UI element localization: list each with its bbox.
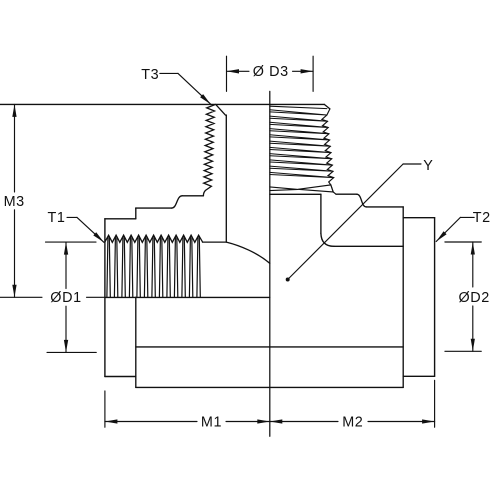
OD3 extension line right — [312, 56, 314, 91]
M2 dimension line — [270, 421, 435, 423]
center body bottom silhouette — [136, 386, 403, 388]
male thread silhouette (right) — [322, 109, 336, 194]
svg-text:Y: Y — [423, 158, 433, 174]
T1 leader — [67, 217, 104, 242]
M2 arrow left — [270, 419, 283, 423]
M1 arrow right — [257, 419, 270, 423]
M2 arrow right — [422, 419, 435, 423]
OD3 dimension line — [227, 70, 314, 72]
left hex-end bottom — [105, 376, 136, 378]
male NPT thread profile (left, section) — [203, 105, 215, 196]
OD2 arrow bottom — [471, 339, 475, 352]
center body top-left silhouette — [136, 207, 172, 209]
svg-text:ØD1: ØD1 — [50, 290, 81, 306]
right flare fillet — [357, 194, 367, 207]
branch top-left inner chamfer — [216, 104, 226, 115]
center body top-right silhouette — [366, 206, 403, 208]
left thread minor line — [203, 241, 227, 243]
OD3 extension line left — [226, 56, 228, 91]
M3 arrow bottom — [12, 285, 16, 298]
top face of branch / M3 top extension line — [0, 103, 324, 105]
right end face — [434, 218, 436, 377]
svg-text:ØD2: ØD2 — [459, 290, 490, 306]
OD1 dimension line — [65, 242, 67, 352]
svg-text:T2: T2 — [473, 210, 491, 226]
svg-text:M1: M1 — [201, 414, 222, 430]
right end-cap bottom — [403, 375, 434, 377]
OD2 extension line top — [445, 241, 481, 243]
thread runout pennant — [270, 185, 333, 192]
right section boundary — [402, 207, 404, 388]
right end-cap top — [403, 217, 434, 219]
thread runout base line — [270, 193, 321, 195]
label OD3 — [253, 64, 289, 80]
bore transition curve — [226, 242, 269, 263]
boss top tangent edge — [334, 245, 403, 247]
svg-text:M3: M3 — [4, 194, 25, 210]
OD3 arrow left — [227, 69, 240, 73]
M1 extension line left — [104, 391, 106, 427]
Y leader — [288, 164, 421, 280]
T2 arrowhead — [436, 231, 446, 241]
OD1 extension line bottom — [47, 351, 96, 353]
OD1 arrow bottom — [64, 340, 68, 353]
OD3 arrow right — [301, 69, 314, 73]
OD1 arrow top — [64, 242, 68, 255]
OD2 extension line bottom — [445, 350, 481, 352]
female NPT thread profile (left port) — [105, 235, 203, 242]
run centerline extension — [0, 296, 105, 298]
T1 arrowhead — [93, 232, 104, 242]
left end face — [104, 219, 106, 377]
left step — [135, 208, 137, 219]
M3 arrow top — [12, 104, 16, 117]
first thread crest line — [270, 106, 327, 108]
label M1 — [201, 414, 222, 430]
M3 dimension line — [14, 104, 16, 297]
svg-text:M2: M2 — [342, 414, 363, 430]
branch top-right chamfer — [324, 104, 330, 109]
label M3 — [4, 194, 25, 210]
Y leader dot — [286, 278, 290, 282]
branch centerline / section boundary — [269, 91, 271, 436]
T3 leader — [160, 73, 211, 104]
svg-text:T1: T1 — [48, 210, 66, 226]
M1 arrow left — [105, 419, 118, 423]
label T3 — [141, 67, 159, 83]
M1 dimension line — [105, 421, 270, 423]
label Y — [423, 158, 433, 174]
OD2 dimension line — [472, 242, 474, 351]
branch bore wall (section) — [225, 115, 227, 242]
left section boundary below axis — [135, 297, 137, 387]
boss bottom tangent edge — [136, 346, 403, 348]
svg-text:Ø D3: Ø D3 — [253, 64, 289, 80]
male thread crest lines (right half) — [270, 110, 334, 178]
female thread flank lines — [107, 237, 200, 297]
label OD2 — [459, 290, 490, 306]
label T1 — [48, 210, 66, 226]
label OD1 — [50, 290, 81, 306]
upper ledge right of branch — [336, 193, 357, 195]
OD1 extension line top — [46, 241, 97, 243]
M2 extension line right — [434, 380, 436, 427]
branch-to-boss fillet — [321, 233, 334, 246]
T2 leader — [436, 217, 474, 241]
T3 arrowhead — [200, 94, 211, 104]
branch outer wall right — [320, 194, 322, 233]
label T2 — [473, 210, 491, 226]
run axis line inside body — [105, 296, 269, 298]
left flare fillet — [172, 196, 183, 208]
OD2 arrow top — [471, 242, 475, 255]
svg-text:T3: T3 — [141, 67, 159, 83]
upper ledge left of branch — [182, 195, 203, 197]
left hex-end top — [105, 218, 136, 220]
label M2 — [342, 414, 363, 430]
